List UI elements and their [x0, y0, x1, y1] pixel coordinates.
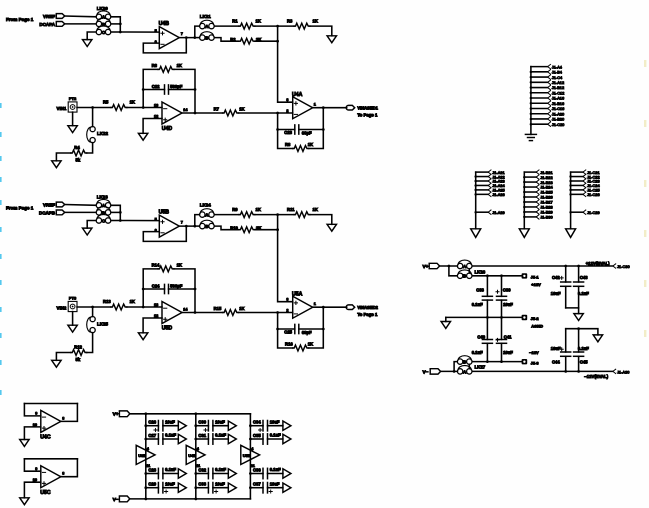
svg-text:R14: R14	[152, 262, 160, 267]
wire U5D pin12 to ground	[143, 318, 162, 333]
svg-text:J1-A29: J1-A29	[492, 210, 504, 215]
svg-text:R1: R1	[232, 18, 238, 23]
wire R15 to U5A pin2	[239, 312, 293, 314]
wire R2 to node	[255, 40, 278, 42]
junction C45 top	[577, 327, 580, 330]
jumper LK20 row B	[96, 18, 111, 27]
wire V- bottom rail	[130, 498, 251, 500]
junction bus1 J1-C16	[530, 107, 533, 110]
junction C25 right	[322, 328, 325, 331]
wire J1 bus1 vertical	[530, 67, 532, 135]
svg-text:0.1uF: 0.1uF	[165, 467, 176, 472]
svg-text:LK21: LK21	[200, 14, 212, 19]
op-amp U5D	[154, 302, 188, 332]
wire C26 to ground arrow	[163, 425, 178, 427]
ground AGND	[441, 322, 450, 329]
wire C25 right plate to vertical	[299, 328, 324, 330]
connector J1 group A pins	[471, 170, 506, 238]
pin arrow J1-C22	[583, 174, 586, 178]
svg-text:8: 8	[62, 416, 64, 420]
pin arrow J1-B22	[536, 175, 539, 179]
capacitor C26	[148, 419, 175, 431]
svg-text:10uF: 10uF	[551, 291, 561, 296]
wire to capacitor C27	[146, 438, 159, 440]
svg-text:B: B	[463, 360, 466, 365]
circuit block 2 input stage	[6, 195, 379, 368]
pin arrow J1-B24	[536, 185, 539, 189]
wire C23 right plate to vertical	[299, 129, 324, 131]
junction U4A output feedback	[322, 106, 325, 109]
pin arrow J1-B29	[536, 210, 539, 214]
capacitor C33	[198, 481, 225, 493]
resistor R3	[287, 18, 318, 29]
wire to C23 left plate	[278, 129, 295, 131]
wire node to R3	[278, 25, 294, 27]
wire U5D output to R15	[182, 312, 223, 314]
svg-text:LK25: LK25	[97, 322, 109, 327]
svg-text:9: 9	[35, 467, 37, 471]
capacitor C44	[551, 346, 571, 364]
junction C28 tap	[144, 472, 147, 475]
svg-text:10uF: 10uF	[270, 481, 280, 486]
capacitor C27	[148, 433, 176, 445]
junction U4E column top rail	[194, 412, 197, 415]
wire C28 to ground arrow	[163, 473, 178, 475]
wire R8 to right vertical	[309, 108, 324, 149]
svg-text:9: 9	[35, 412, 37, 416]
pin arrow J1-B25	[536, 190, 539, 194]
wire C22 right plate to vertical	[169, 89, 196, 91]
ground at U5D pin12	[138, 333, 147, 340]
ground C42/C43	[574, 314, 583, 321]
wire DCAPB to LK23 row B	[65, 211, 96, 213]
junction LK23 bus row B	[119, 211, 122, 214]
wire C40 vertical bottom	[486, 343, 488, 361]
junction feedback tap at U5D input	[142, 306, 145, 309]
wire R1 to node	[255, 25, 278, 27]
wire U4B feedback loop	[143, 38, 186, 53]
svg-text:C25: C25	[284, 330, 292, 335]
svg-text:R11: R11	[287, 207, 295, 212]
svg-text:C24: C24	[152, 284, 160, 289]
svg-text:A: A	[463, 369, 466, 374]
ground connector J1 group A pins	[471, 229, 481, 238]
wire node to R11	[278, 214, 294, 216]
jumper LK26 row B	[457, 270, 472, 279]
wire to C25 left plate	[278, 328, 295, 330]
wire pin J1-B26	[524, 196, 536, 198]
junction C43 top rail	[577, 265, 580, 268]
junction J1-C22	[569, 175, 572, 178]
wire pin J1-A12	[531, 81, 548, 83]
jumper LK20 row A	[96, 11, 111, 20]
svg-text:−12V(EVAL): −12V(EVAL)	[584, 374, 608, 379]
junction VIN2 node	[91, 306, 94, 309]
svg-text:C36: C36	[253, 467, 261, 472]
jumper LK21 row A	[200, 20, 215, 29]
svg-text:R9: R9	[232, 207, 238, 212]
wire pin J1-A24	[476, 184, 489, 186]
wire C38 vertical bottom	[486, 300, 488, 317]
junction C31 tap	[194, 438, 197, 441]
svg-text:B: B	[463, 274, 466, 279]
svg-text:J1-C29: J1-C29	[587, 210, 600, 215]
wire LK20 row B to bus	[111, 23, 120, 25]
svg-text:C28: C28	[148, 467, 156, 472]
wire C40 vertical top	[486, 317, 488, 339]
wire C36 to ground arrow	[268, 473, 283, 475]
junction bus1 J1-B16	[530, 102, 533, 105]
junction U4E column bottom rail	[194, 498, 197, 501]
svg-text:LK26: LK26	[475, 270, 486, 275]
wire LK20 right-side bus	[111, 17, 120, 32]
wire C43 vertical bottom	[578, 286, 580, 308]
wire pin J1-C23	[571, 180, 583, 182]
svg-text:R7: R7	[214, 107, 220, 112]
pin arrow J1-A29	[488, 210, 491, 214]
op-amp U4D	[154, 102, 188, 132]
polarity mark C29	[165, 490, 168, 493]
wire C27 to ground arrow	[163, 438, 178, 440]
capacitor C39	[496, 287, 513, 307]
junction node after R2	[276, 40, 279, 43]
resistor R12	[71, 345, 87, 356]
pin arrow J1-A25	[488, 188, 491, 192]
junction J1-A29	[474, 211, 477, 214]
junction bus1 J1-B20	[530, 118, 533, 121]
ground after R12	[52, 360, 61, 367]
ground connector J1 group C pins	[566, 229, 576, 238]
junction J1-C29	[569, 211, 572, 214]
wire C44/C45 top rail	[566, 329, 598, 335]
capacitor C30	[198, 419, 225, 431]
wire U4B output	[179, 37, 195, 39]
polarity mark C33	[215, 490, 218, 493]
wire decoupling column U3E vertical	[145, 414, 147, 499]
wire LK26 row B to J5-1	[472, 275, 521, 277]
wire C32 to ground arrow	[213, 473, 228, 475]
junction J1-B30	[523, 216, 526, 219]
svg-text:AGND: AGND	[531, 324, 543, 329]
resistor R4	[71, 145, 87, 156]
wire pin J1-C4	[531, 76, 548, 78]
wire C33 to ground arrow	[213, 487, 228, 489]
svg-text:10uF: 10uF	[215, 419, 225, 424]
svg-text:C42: C42	[552, 275, 560, 280]
wire pin J1-C12	[531, 92, 548, 94]
jumper LK27 row B	[457, 356, 472, 365]
junction bus1 J1-A20	[530, 112, 533, 115]
svg-text:R4: R4	[74, 145, 80, 150]
op-amp U5E power pins	[241, 445, 260, 468]
svg-text:R10: R10	[230, 225, 238, 230]
svg-text:C30: C30	[198, 420, 206, 425]
pin arrow J1-C26	[583, 192, 586, 196]
wire U4C feedback top rail	[24, 403, 77, 405]
svg-text:V+: V+	[113, 412, 119, 418]
wire LK27 B-A link	[468, 364, 470, 368]
svg-text:A: A	[102, 15, 105, 20]
jumper LK22	[87, 127, 96, 143]
svg-text:V+: V+	[423, 264, 429, 269]
op-amp U4C	[33, 410, 65, 440]
connector J1 ground pin group (A4-C20)	[525, 64, 565, 140]
svg-text:C29: C29	[148, 482, 156, 487]
svg-text:10uF: 10uF	[503, 350, 513, 355]
wire C38 vertical top	[486, 276, 488, 297]
svg-text:VREF: VREF	[43, 203, 55, 208]
pin arrow J1-A21	[488, 170, 491, 174]
svg-text:7: 7	[181, 32, 183, 36]
pin arrow J1-C12	[548, 91, 551, 95]
svg-text:0.1uF: 0.1uF	[270, 467, 281, 472]
svg-text:R16: R16	[285, 342, 293, 347]
svg-text:1: 1	[314, 103, 316, 107]
wire U5B out split to LK24	[195, 215, 200, 227]
svg-text:A: A	[205, 24, 208, 29]
junction U5D output feedback	[194, 311, 197, 314]
svg-text:C43: C43	[580, 275, 588, 280]
junction C25 left	[276, 328, 279, 331]
port VBIASED1 output flag	[346, 105, 355, 110]
svg-text:0.1uF: 0.1uF	[578, 346, 589, 351]
wire connector J1 group A pins vertical	[475, 172, 477, 229]
junction J1-C25	[569, 189, 572, 192]
ground at LK20 row C	[83, 40, 92, 47]
junction J1-B22	[523, 176, 526, 179]
op-amp U4C spare follower	[20, 404, 78, 447]
capacitor C31	[198, 433, 226, 445]
svg-text:13: 13	[154, 303, 158, 307]
svg-text:U5B: U5B	[159, 210, 170, 216]
wire to capacitor C28	[146, 473, 159, 475]
capacitor C34	[253, 419, 280, 431]
svg-text:C40: C40	[477, 334, 485, 339]
svg-text:J1-C26: J1-C26	[587, 192, 600, 197]
svg-text:J1-C30: J1-C30	[617, 264, 630, 269]
svg-text:10uF: 10uF	[165, 481, 175, 486]
wire pin J1-C29	[571, 211, 583, 213]
wire VIN2 node to LK25	[92, 307, 94, 317]
svg-text:1K: 1K	[177, 63, 182, 68]
pin arrow J1-C23	[583, 179, 586, 183]
wire U5C output to feedback	[61, 459, 78, 477]
wire pin J1-A20	[531, 113, 548, 115]
wire PT3 to R13	[77, 306, 111, 308]
svg-text:C41: C41	[504, 334, 512, 339]
op-amp U5C spare follower	[20, 459, 78, 505]
junction bus1 J1-A16	[530, 97, 533, 100]
ground C44/C45	[593, 335, 602, 342]
svg-text:5k: 5k	[76, 157, 81, 162]
svg-text:1: 1	[314, 302, 316, 306]
svg-text:U5E: U5E	[243, 453, 251, 458]
port VBIASED2 output flag	[346, 305, 355, 310]
wire PT3 ground stub	[72, 312, 74, 326]
svg-text:VREF: VREF	[43, 14, 55, 19]
svg-text:1K: 1K	[239, 306, 244, 311]
wire to LK21 row B	[195, 37, 200, 39]
svg-text:560pF: 560pF	[170, 84, 183, 89]
svg-text:VBIASED2: VBIASED2	[357, 305, 378, 310]
wire pin J1-B29	[524, 211, 536, 213]
wire pin J1-B16	[531, 102, 548, 104]
connector J1 group C pins	[566, 170, 601, 238]
capacitor C24	[152, 284, 183, 294]
junction U3E column bottom rail	[144, 498, 147, 501]
ground arrow at C36	[283, 469, 291, 478]
resistor R14	[152, 262, 182, 272]
wire connector J1 group B pins vertical	[523, 172, 525, 229]
svg-text:14: 14	[183, 108, 188, 112]
port V- input flag	[119, 496, 129, 502]
svg-text:1K: 1K	[239, 107, 244, 112]
wire R7 to U4A pin2	[239, 112, 293, 114]
resistor R8	[285, 142, 313, 151]
wire pin J1-A16	[531, 97, 548, 99]
wire U5C pin10 to ground	[24, 482, 40, 498]
wire C41 vertical top	[501, 317, 503, 339]
connector J5-1	[522, 273, 528, 278]
wire U4B out split to LK21	[195, 26, 200, 37]
wire DCAPA to LK20 row B	[65, 23, 96, 25]
wire LK23 right-side bus	[111, 205, 120, 220]
wire C34 to ground arrow	[268, 425, 283, 427]
wire U5B feedback loop	[143, 226, 186, 241]
junction C29 tap	[144, 486, 147, 489]
svg-text:U5A: U5A	[292, 291, 303, 297]
resistor R15	[214, 306, 245, 315]
wire U4C feedback left vertical	[24, 404, 40, 416]
connector PT2	[68, 102, 77, 112]
junction J1-B23	[523, 181, 526, 184]
svg-text:VIN2: VIN2	[57, 305, 67, 310]
wire R14 to right vertical	[174, 269, 195, 313]
pin arrow J1-C24	[583, 183, 586, 187]
wire LK22 to R4	[87, 143, 93, 153]
svg-text:10uF: 10uF	[503, 302, 513, 307]
svg-text:7: 7	[181, 221, 183, 225]
junction V+ split	[448, 265, 451, 268]
port V- input flag (power entry)	[430, 369, 440, 374]
scan artifact cyan edge ticks	[0, 103, 2, 395]
capacitor C40	[472, 334, 493, 354]
wire to C24 left plate	[143, 288, 164, 290]
svg-text:68pF: 68pF	[302, 330, 312, 335]
ground connector J1 group B pins	[519, 229, 529, 238]
svg-text:U4B: U4B	[159, 21, 170, 27]
capacitor C45	[574, 346, 590, 364]
svg-text:From Page 1: From Page 1	[6, 205, 34, 210]
junction C24 left	[142, 288, 145, 291]
wire pin J1-B24	[524, 186, 536, 188]
pin arrow J1-C25	[583, 188, 586, 192]
ground arrow at C31	[228, 434, 236, 443]
pin arrow J1-A4	[548, 64, 551, 68]
wire PT2 ground stub	[72, 112, 74, 126]
svg-text:0.1uF: 0.1uF	[215, 467, 226, 472]
svg-text:−12V: −12V	[529, 350, 539, 355]
jumper LK27 row A	[457, 366, 472, 375]
junction node after R10	[276, 228, 279, 231]
svg-text:0.1uF: 0.1uF	[472, 302, 483, 307]
junction bus1 J1-B12	[530, 86, 533, 89]
svg-text:R6: R6	[152, 63, 158, 68]
wire pin J1-B30	[524, 216, 536, 218]
svg-text:LK27: LK27	[475, 364, 486, 369]
wire C42-C43 join	[566, 308, 579, 314]
junction J1-C23	[569, 180, 572, 183]
junction C32 tap	[194, 472, 197, 475]
junction C23 left	[276, 128, 279, 131]
svg-text:C38: C38	[476, 287, 484, 292]
svg-text:1K: 1K	[256, 18, 261, 23]
wire connector J1 group C pins vertical	[570, 172, 572, 229]
junction U5A output feedback	[322, 306, 325, 309]
capacitor C25	[284, 324, 312, 335]
svg-text:C31: C31	[198, 433, 206, 438]
junction C45 bottom rail	[577, 370, 580, 373]
svg-text:10uF: 10uF	[215, 481, 225, 486]
jumper LK26 row A	[457, 260, 472, 269]
svg-text:560pF: 560pF	[170, 284, 183, 289]
junction J1-B25	[523, 191, 526, 194]
svg-text:From Page 1: From Page 1	[6, 17, 34, 22]
pin arrow J1-A26	[488, 192, 491, 196]
junction node after R1	[276, 25, 279, 28]
wire pin J1-B20	[531, 118, 548, 120]
resistor R10	[230, 225, 261, 232]
ground at LK23 row C	[83, 228, 92, 235]
wire LK24 row B to R10	[214, 226, 239, 230]
junction V- split	[453, 370, 456, 373]
resistor R7	[214, 107, 245, 116]
wire R3 to ground	[310, 26, 332, 36]
junction J1-A25	[474, 189, 477, 192]
svg-text:0.1uF: 0.1uF	[215, 433, 226, 438]
polarity mark C37	[269, 490, 272, 493]
svg-text:VIN1: VIN1	[57, 106, 67, 111]
svg-text:2: 2	[286, 309, 288, 313]
wire R12 to ground	[56, 353, 70, 361]
wire LK24 row A to R9	[214, 214, 239, 216]
svg-text:B: B	[205, 36, 208, 41]
svg-text:C: C	[102, 218, 105, 223]
junction LK23 bus row C	[119, 219, 122, 222]
wire pin J1-C20	[531, 123, 548, 125]
svg-text:R5: R5	[103, 100, 109, 105]
capacitor C23	[284, 125, 312, 136]
wire C43 vertical top	[578, 266, 580, 282]
junction bus1 J1-C12	[530, 92, 533, 95]
capacitor C35	[253, 433, 281, 445]
wire pin J1-A22	[476, 176, 489, 178]
wire C30 to ground arrow	[213, 425, 228, 427]
junction U4A inverting node	[276, 112, 279, 115]
junction U3E column top rail	[144, 412, 147, 415]
svg-text:U4E: U4E	[188, 453, 196, 458]
svg-text:J5-2: J5-2	[531, 316, 540, 321]
junction J1-B28	[523, 206, 526, 209]
wire pin J1-A26	[476, 193, 489, 195]
ground arrow at C32	[228, 469, 236, 478]
svg-text:VBIASED1: VBIASED1	[357, 106, 378, 111]
port DCAPB input flag	[56, 210, 64, 215]
wire R11 to ground	[310, 215, 332, 225]
junction J1-B29	[523, 211, 526, 214]
wire C45 vertical bottom	[578, 356, 580, 371]
wire C37 to ground arrow	[268, 487, 283, 489]
